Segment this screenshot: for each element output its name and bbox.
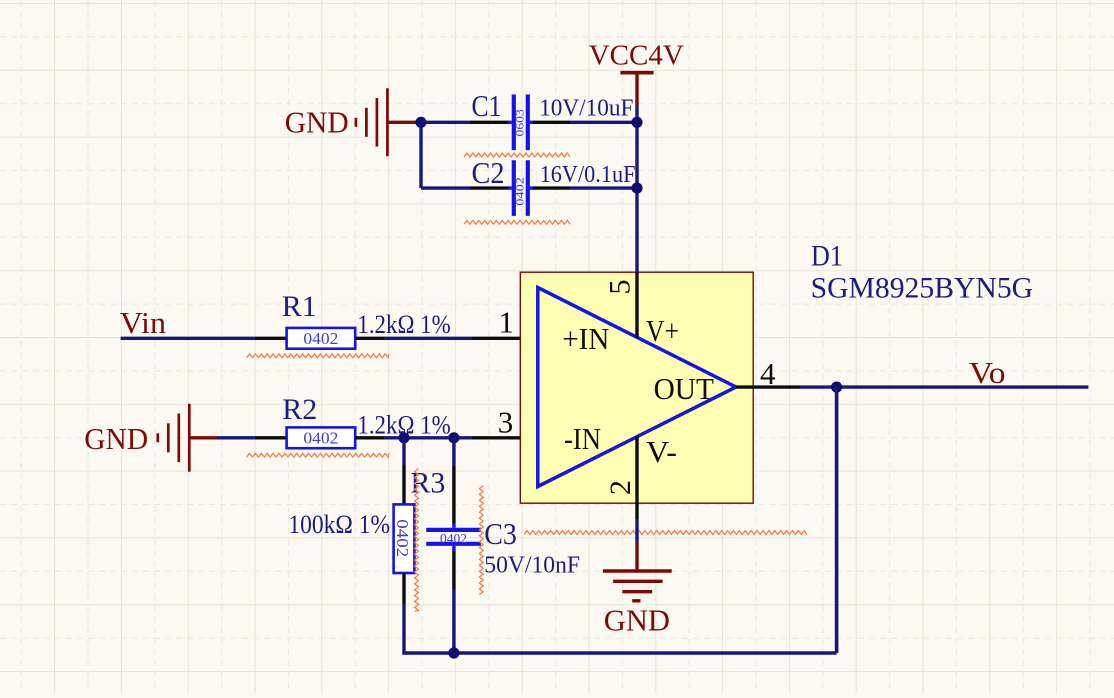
svg-text:50V/10nF: 50V/10nF	[484, 553, 580, 579]
svg-text:0402: 0402	[303, 429, 338, 448]
svg-text:SGM8925BYN5G: SGM8925BYN5G	[811, 272, 1034, 305]
svg-text:R2: R2	[282, 393, 317, 426]
svg-text:C1: C1	[472, 88, 502, 123]
svg-text:2: 2	[604, 480, 637, 495]
svg-text:GND: GND	[84, 421, 148, 456]
svg-text:0402: 0402	[393, 519, 412, 557]
svg-text:5: 5	[604, 280, 637, 295]
svg-text:GND: GND	[285, 105, 349, 140]
svg-text:C3: C3	[484, 516, 517, 551]
svg-text:0402: 0402	[512, 177, 526, 206]
svg-text:VCC4V: VCC4V	[589, 40, 684, 72]
svg-text:3: 3	[498, 404, 514, 439]
svg-text:V+: V+	[646, 313, 679, 348]
svg-text:10V/10uF: 10V/10uF	[539, 95, 633, 121]
svg-text:Vin: Vin	[120, 305, 167, 340]
svg-text:D1: D1	[811, 239, 843, 272]
svg-text:0603: 0603	[512, 109, 526, 136]
svg-text:4: 4	[760, 356, 776, 391]
svg-text:C2: C2	[472, 155, 505, 190]
svg-text:1.2kΩ 1%: 1.2kΩ 1%	[357, 411, 450, 440]
svg-text:1.2kΩ 1%: 1.2kΩ 1%	[357, 310, 450, 339]
svg-text:1: 1	[498, 304, 514, 339]
svg-text:V-: V-	[646, 434, 677, 469]
svg-text:OUT: OUT	[654, 371, 714, 406]
svg-text:Vo: Vo	[969, 355, 1006, 390]
svg-text:GND: GND	[604, 603, 670, 638]
svg-text:R1: R1	[282, 290, 317, 323]
svg-text:16V/0.1uF: 16V/0.1uF	[540, 162, 636, 188]
svg-text:-IN: -IN	[564, 421, 601, 456]
svg-text:0402: 0402	[440, 532, 467, 547]
svg-text:100kΩ 1%: 100kΩ 1%	[288, 510, 390, 539]
svg-text:+IN: +IN	[562, 321, 609, 356]
svg-text:0402: 0402	[303, 329, 338, 348]
